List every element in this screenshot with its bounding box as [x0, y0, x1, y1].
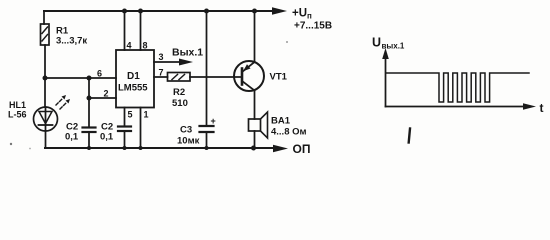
label D1 LM555 — [118, 71, 148, 94]
svg-text:+U: +U — [292, 8, 307, 20]
wire: OP bottom rail — [45, 145, 288, 153]
svg-text:LM555: LM555 — [118, 83, 148, 94]
speck — [29, 148, 31, 150]
svg-text:BA1: BA1 — [271, 116, 291, 127]
resistor R2 — [168, 73, 191, 82]
svg-text:HL1: HL1 — [9, 100, 26, 110]
speck — [286, 41, 288, 43]
node: pin8 on rail — [138, 9, 143, 14]
svg-text:+: + — [211, 116, 216, 126]
svg-text:D1: D1 — [127, 71, 140, 82]
svg-text:VT1: VT1 — [270, 72, 288, 83]
node: C2 second on rail — [123, 146, 127, 150]
wire: R2 to transistor base — [190, 76, 242, 78]
svg-text:0,1: 0,1 — [65, 132, 79, 143]
capacitor C3 electrolytic — [200, 126, 214, 148]
wire: collector down to speaker — [254, 91, 256, 120]
svg-text:5: 5 — [128, 110, 133, 120]
wire: pin 8 to top rail — [140, 11, 142, 50]
graph: waveform pulse burst — [386, 73, 529, 102]
svg-text:U: U — [372, 36, 381, 50]
svg-text:3...3,7к: 3...3,7к — [56, 36, 87, 47]
wire: R1 bottom to pin6 node and LED — [44, 45, 46, 107]
label C2 0,1 (second) — [100, 122, 114, 143]
wire: vertical drop to pin 2 level — [88, 78, 90, 98]
svg-text:+7...15В: +7...15В — [294, 21, 332, 32]
node: junction pin2 / C2 — [87, 96, 92, 101]
wire: pin 7 to R2 — [154, 76, 168, 78]
svg-text:вых.1: вых.1 — [382, 42, 405, 51]
graph: Y axis — [382, 48, 389, 107]
svg-text:8: 8 — [143, 41, 148, 51]
svg-text:3: 3 — [159, 52, 164, 62]
capacitor C2 (first, on pins 2/6 node) — [83, 98, 96, 148]
wire: pin 4 to top rail — [124, 11, 126, 50]
wire: pin 5 down to C2 — [124, 108, 126, 127]
svg-text:7: 7 — [159, 68, 164, 78]
resistor R1 — [41, 24, 50, 45]
svg-text:4: 4 — [127, 41, 132, 51]
wire: emitter to top rail — [254, 11, 256, 62]
node: speaker on rail — [251, 146, 256, 151]
svg-text:п: п — [307, 12, 312, 21]
wire: LED bottom to ground rail — [45, 131, 47, 148]
speck — [10, 143, 12, 145]
svg-text:0,1: 0,1 — [100, 132, 114, 143]
svg-text:6: 6 — [97, 69, 102, 79]
label BA1 value — [271, 116, 307, 138]
wire: pin 1 to ground rail — [140, 108, 142, 149]
wire: pin 2 horizontal to chip — [89, 97, 116, 99]
node: pin4 on rail — [122, 9, 127, 14]
speaker BA1 — [249, 112, 268, 148]
LED HL1 — [34, 107, 58, 131]
label R2 510 — [172, 87, 188, 109]
wire: +U tap down to C3 (crosses base wire, no junction) — [206, 11, 208, 126]
svg-text:R2: R2 — [173, 87, 185, 98]
label +Un supply — [292, 8, 332, 32]
node: pin1 on rail — [139, 146, 143, 150]
wire: left branch from top rail down to R1 — [43, 11, 45, 24]
wire: pin 6 horizontal to chip — [45, 77, 116, 79]
LED light arrows — [56, 95, 70, 109]
node: R1/pin6/LED junction — [43, 76, 48, 81]
svg-text:ОП: ОП — [293, 142, 311, 156]
label C2 0,1 (first) — [65, 122, 79, 143]
transistor VT1 — [234, 61, 264, 91]
svg-text:Вых.1: Вых.1 — [172, 47, 203, 59]
svg-text:C3: C3 — [180, 125, 192, 136]
label C3 10mk — [177, 125, 200, 147]
node: emitter on rail — [252, 9, 257, 14]
svg-text:2: 2 — [104, 89, 109, 99]
graph: Uout axis label — [372, 36, 405, 51]
svg-text:510: 510 — [172, 98, 188, 109]
node: C2 first on rail — [87, 146, 91, 150]
svg-text:10мк: 10мк — [177, 136, 200, 147]
graph: X axis — [386, 103, 537, 109]
label HL1 L-56 — [8, 100, 27, 120]
svg-text:4...8 Ом: 4...8 Ом — [271, 127, 307, 138]
svg-text:L-56: L-56 — [8, 110, 27, 120]
wire: pin 3 output arrow — [154, 59, 193, 66]
stray ink mark — [409, 129, 410, 143]
svg-text:1: 1 — [144, 110, 149, 120]
node: C3 tap on top rail — [204, 9, 209, 14]
svg-text:t: t — [540, 101, 544, 115]
op chip D1 LM555 — [116, 50, 154, 108]
node: junction pin6 wire / pin2 drop — [87, 76, 92, 81]
label R1 value — [56, 26, 87, 47]
capacitor C2 (second, on pin 5) — [118, 127, 131, 149]
wire: +U top rail — [44, 7, 287, 15]
node: C3 on rail — [205, 146, 209, 150]
